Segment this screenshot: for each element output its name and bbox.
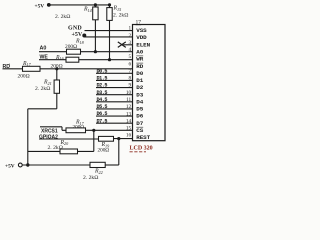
svg-text:3: 3 [129,40,132,46]
resistor R14 body [93,7,98,20]
junction R14 to A0 line [94,50,97,53]
svg-text:9: 9 [129,83,132,89]
svg-text:+5V: +5V [35,3,45,9]
svg-text:1: 1 [129,26,132,32]
wire R22 to REST vertical [105,164,119,166]
wire R21 bottom lead down [56,93,58,109]
junction bottom rail to left vertical [26,163,29,166]
wire +5V branch to R20 [28,150,60,152]
resistor R16 body [66,57,79,62]
svg-text:D1: D1 [136,77,143,84]
wire D0.5 to pin 7 [96,72,133,74]
wire R20 to CS vertical [78,150,94,152]
wire +5V to pin 2 [84,36,132,38]
svg-text:CS: CS [136,127,143,134]
svg-text:D7: D7 [136,120,143,127]
wire A0 line to pin 4 [39,51,133,53]
wire GPIOA2/REST line left segment [39,138,99,140]
wire R22 right lead up to REST line [118,139,120,165]
svg-text:17: 17 [136,20,142,26]
wire top +5V rail [49,4,110,6]
junction R15 to WE line [108,58,111,61]
resistor R17 body [23,66,41,71]
svg-text:200Ω: 200Ω [98,148,110,154]
svg-text:11: 11 [126,97,131,103]
svg-text:+5V: +5V [5,164,15,170]
svg-text:VSS: VSS [136,27,147,34]
svg-text:D0: D0 [136,70,143,77]
svg-text:2. 2kΩ: 2. 2kΩ [113,13,128,19]
svg-text:D6: D6 [136,113,143,120]
junction REST line to R22 pull-up [117,137,120,140]
connector J17 LCD320 box outline [133,25,166,141]
wire CS jog down [61,127,63,131]
svg-text:R22: R22 [94,169,103,175]
wire D6.5 to pin 13 [96,115,133,117]
svg-text:D3: D3 [136,91,143,98]
no-connect X mark on ELEN pin 3 [118,42,126,48]
resistor R21 body [54,80,59,93]
resistor R22 body [90,162,105,167]
svg-text:13: 13 [126,111,132,117]
svg-text:12: 12 [126,104,132,110]
svg-text:4: 4 [129,47,132,53]
svg-text:ELEN: ELEN [136,41,150,48]
svg-text:2. 2kΩ: 2. 2kΩ [55,14,70,20]
svg-text:GND: GND [68,26,82,32]
wire D7.5 to pin 14 [96,122,133,124]
junction +5V top terminal dot [47,3,51,7]
svg-text:2. 2kΩ: 2. 2kΩ [48,145,63,151]
wire D5.5 to pin 12 [96,108,133,110]
svg-text:A0: A0 [136,49,143,56]
wire XRCS1/CS line overline segment [40,126,62,128]
wire REST line to pin 16 [114,138,133,140]
wire D4.5 to pin 11 [96,101,133,103]
resistor R20 body [60,149,78,154]
wire RD line to pin 6 [3,68,133,70]
wire D3.5 to pin 10 [96,94,133,96]
svg-text:7: 7 [129,69,132,75]
resistor R17b body (CS series) [66,128,86,133]
svg-text:200Ω: 200Ω [18,74,30,80]
wire R14 bottom lead down to A0 line [94,20,96,52]
resistor R19 body [99,136,114,141]
svg-text:D2: D2 [136,84,143,91]
wire R15 top lead [109,5,111,8]
svg-text:2. 2kΩ: 2. 2kΩ [83,175,98,180]
svg-text:R15: R15 [113,6,122,12]
svg-text:6: 6 [129,61,132,67]
svg-text:10: 10 [126,90,132,96]
svg-text:D5: D5 [136,106,143,113]
svg-text:D4: D4 [136,98,143,105]
wire WE line to pin 5 [39,59,133,61]
wire R21 top lead [56,69,58,80]
wire R20 right lead up to CS line [93,130,95,151]
wire left vertical down to +5V rail [27,109,29,165]
svg-text:R14: R14 [83,7,92,13]
svg-text:8: 8 [129,76,132,82]
svg-text:R16: R16 [55,55,65,61]
wire GND to pin 1 [85,30,133,32]
junction RD line to R21 pull-up [55,67,58,70]
wire R15 bottom lead down to WE line [109,20,111,59]
svg-text:15: 15 [126,126,132,132]
wire ELEN stub pin 3 [122,44,133,46]
wire D1.5 to pin 8 [96,79,133,81]
junction +5V VDD terminal dot [82,34,86,38]
svg-text:VDD: VDD [136,34,147,41]
wire R21 path horizontal to left [28,108,57,110]
svg-text:14: 14 [126,118,132,124]
svg-text:WR: WR [136,56,143,63]
wire CS line to pin 15 [62,129,133,131]
terminal +5V bottom open circle [18,163,22,167]
junction top rail to R14 [94,3,97,6]
junction top rail to R15 [108,3,111,6]
svg-text:2. 2kΩ: 2. 2kΩ [35,86,50,92]
svg-text:LCD 320: LCD 320 [130,145,153,151]
svg-text:+5V: +5V [72,32,83,38]
resistor R15 body [107,8,112,21]
resistor R18 body [67,49,81,54]
wire R14 top lead [94,5,96,7]
svg-text:A0: A0 [40,45,47,51]
wire D2.5 to pin 9 [96,87,133,89]
svg-text:RD: RD [136,63,143,70]
svg-text:R21: R21 [43,80,52,86]
svg-text:16: 16 [126,133,132,139]
junction CS line to R20 pull-up [92,129,95,132]
svg-text:5: 5 [129,54,132,60]
svg-text:REST: REST [136,134,150,141]
wire +5V bottom rail [22,164,90,166]
svg-text:2: 2 [129,33,132,39]
